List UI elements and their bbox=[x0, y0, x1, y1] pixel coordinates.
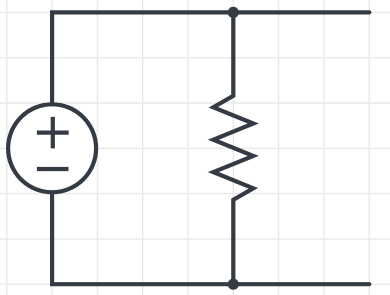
wire: source top lead + top-left segment (source to resistor node) bbox=[52, 12, 233, 105]
wire: source bottom lead + bottom-left segment bbox=[52, 191, 233, 284]
node: bottom junction bbox=[228, 279, 239, 290]
resistor R1 (vertical zigzag with leads) bbox=[213, 12, 253, 284]
voltage source V1 minus sign bbox=[37, 167, 69, 171]
node: top junction bbox=[228, 7, 239, 18]
voltage source V1 (circle body) bbox=[8, 104, 96, 192]
voltage source V1 plus sign bbox=[37, 117, 69, 148]
wire: bottom-right segment (resistor node to open end) bbox=[233, 282, 369, 286]
wire: top-right segment (resistor node to open end) bbox=[233, 10, 369, 14]
